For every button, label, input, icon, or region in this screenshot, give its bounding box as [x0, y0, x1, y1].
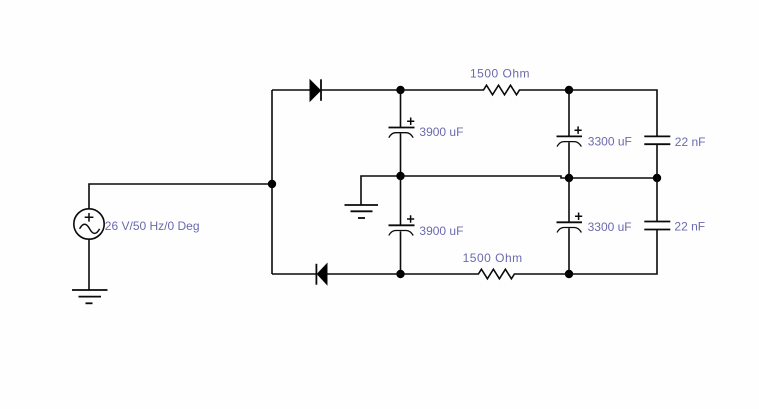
wire source top to left node: [89, 184, 272, 209]
ground (middle): [345, 205, 379, 218]
capacitor C3 plates: [557, 136, 583, 146]
svg-text:22 nF: 22 nF: [675, 135, 706, 149]
node top-2 (569,90): [565, 86, 573, 94]
resistor R2 1500 Ohm (bottom): [401, 269, 570, 279]
plus C4: [575, 213, 582, 221]
svg-text:3900 uF: 3900 uF: [419, 224, 463, 238]
capacitor C6 22 nF (bottom) plates: [644, 222, 670, 230]
plus C3: [575, 126, 582, 133]
diode D2 (points left): [316, 264, 327, 285]
wire diode D1 to node: [321, 89, 401, 91]
capacitor C3 3300 uF (top) leads: [568, 90, 570, 136]
wire diode D2 to left bus: [272, 273, 316, 275]
capacitor C4 plates: [557, 222, 583, 232]
AC source V1: [74, 209, 104, 239]
wire middle rail with jog: [401, 176, 658, 178]
capacitor C2 plates: [389, 225, 415, 235]
wire left vertical bus: [271, 90, 273, 274]
svg-text:22 nF: 22 nF: [674, 220, 705, 234]
node A (left junction): [268, 180, 276, 188]
node mid-2 (569,178): [565, 174, 573, 182]
node mid-3 (657,178): [653, 174, 661, 182]
capacitor C5 22 nF (top) plates: [644, 136, 670, 144]
C6 leads: [656, 178, 658, 222]
svg-text:3300 uF: 3300 uF: [588, 134, 632, 148]
node top-1 (400.5,90): [396, 86, 404, 94]
diode D1 (points right): [310, 79, 321, 101]
capacitor C2 3900 uF (bottom) leads: [400, 176, 402, 225]
capacitor C1 plates: [389, 128, 415, 138]
node bot-2 (569,274): [565, 270, 573, 278]
svg-text:3300 uF: 3300 uF: [588, 220, 632, 234]
node bot-1 (400.5,274): [396, 270, 404, 278]
svg-text:26 V/50 Hz/0 Deg: 26 V/50 Hz/0 Deg: [105, 219, 200, 233]
ground (source): [72, 290, 108, 303]
node mid-1 (400.5,176): [396, 172, 404, 180]
svg-text:1500 Ohm: 1500 Ohm: [470, 67, 530, 81]
wire source bottom to ground: [88, 239, 90, 290]
capacitor C1 3900 uF (top) leads: [400, 90, 402, 127]
plus C2: [407, 215, 414, 223]
middle ground wire: [361, 176, 401, 205]
wire top rail to right corner, down to C5: [569, 90, 657, 136]
capacitor C4 3300 uF (bottom) leads: [568, 178, 570, 222]
wire top rail left segment: [272, 89, 310, 91]
resistor R1 1500 Ohm (top): [401, 85, 570, 95]
C5 bottom lead: [656, 144, 658, 178]
svg-text:1500 Ohm: 1500 Ohm: [463, 251, 523, 265]
plus C1: [407, 118, 414, 126]
wire bottom rail to diode D2: [327, 273, 401, 275]
svg-text:3900 uF: 3900 uF: [419, 125, 463, 139]
